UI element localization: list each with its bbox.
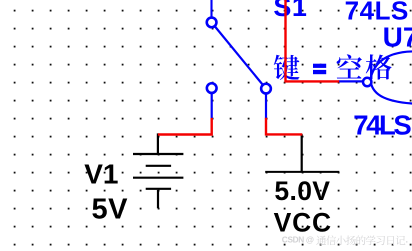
power VCC [265,134,339,172]
svg-text:5.0V: 5.0V [274,176,330,206]
svg-text:74LS: 74LS [353,109,411,140]
gate U7 (NAND, mirrored, output bubble) [339,51,412,103]
svg-text:S1: S1 [273,0,307,22]
wire switch throw to VCC [266,118,302,135]
svg-text:V1: V1 [84,159,118,190]
svg-text:.: . [406,234,408,244]
label key = space [274,54,392,80]
switch S1 [207,0,271,119]
watermark [282,234,408,245]
svg-text:VCC: VCC [274,207,332,237]
svg-text:5V: 5V [92,194,129,226]
svg-text:U7: U7 [383,22,412,53]
wire switch throw to battery [158,118,212,135]
battery V1 [133,133,183,208]
wire switch common to gate [286,0,340,81]
svg-text:CSDN @: CSDN @ [282,234,314,244]
